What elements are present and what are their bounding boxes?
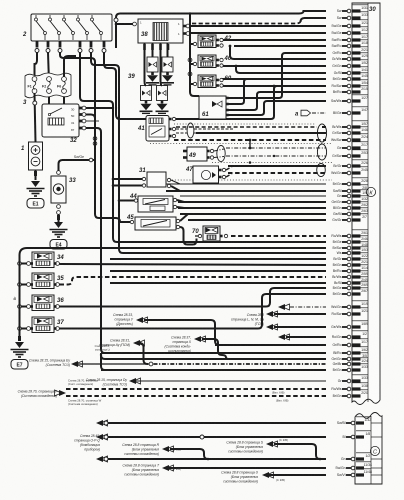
sensor 44 terminals bbox=[134, 199, 137, 202]
wire 11/34 (Sw/Gn) bbox=[168, 462, 372, 470]
arrow to TCM row 1/89 bbox=[266, 324, 273, 330]
sensor 31 bbox=[139, 168, 166, 187]
wire riser 61 to 1/45 bbox=[228, 79, 326, 104]
wire 2/15 (Br/Ro) bbox=[333, 86, 368, 94]
wire 1/45 (Br/Gn) bbox=[222, 73, 368, 81]
wire 1/32 (Ge/Gn) bbox=[178, 196, 368, 204]
wire 1/19 (Ws/Gn) bbox=[290, 301, 368, 309]
vertical feed right of box2 bbox=[114, 18, 118, 22]
left rail into 61 bbox=[190, 14, 199, 97]
wire 3/5 (Ge/Gn) bbox=[332, 353, 369, 361]
wire 33 down to ground bbox=[58, 215, 60, 223]
circled letter C on bottom box bbox=[370, 446, 379, 455]
wire 1/27 (Sw/Ws) bbox=[331, 95, 368, 103]
wire 2/63 (Ge/Bl) bbox=[180, 208, 368, 216]
wire 1/53 (Ws) bbox=[337, 247, 368, 255]
central electric unit 30 (tall box) bbox=[352, 3, 380, 405]
wire 1/8 (Bl) bbox=[106, 431, 371, 439]
wire feed injector 37 bbox=[20, 328, 27, 330]
terminals below box 2 bbox=[35, 41, 106, 53]
wire rail x101 branch 3/5 bbox=[101, 355, 326, 359]
coil 38 terminals bbox=[133, 22, 137, 26]
wire 1/38 (Ro/Ws) bbox=[66, 383, 368, 391]
annotation cooling block U bbox=[221, 471, 258, 484]
injector 34 terminals bbox=[27, 262, 31, 266]
injector feed rail + row 1/48 bbox=[20, 248, 327, 336]
ground E4 bbox=[50, 222, 68, 249]
wire 1/31 (Sw) bbox=[337, 5, 368, 13]
wire 2/28 (Br/Gn) bbox=[166, 178, 368, 186]
relay 41 terminals bbox=[169, 118, 172, 121]
ignition switch assembly 2 bbox=[22, 14, 112, 41]
wire 2/62 (Bl/Gn) bbox=[178, 202, 368, 210]
fuse box 3 bbox=[23, 73, 71, 106]
wire 1/24 (Ge/Br) bbox=[333, 358, 368, 366]
wire 2/26 (Br/Gr) bbox=[228, 160, 368, 168]
annotation cooling block R bbox=[122, 443, 159, 456]
sensor 42 bbox=[198, 35, 232, 48]
annotation cooling system V bbox=[18, 390, 58, 399]
sensor 31 terminals bbox=[142, 177, 145, 180]
sensor 40 bbox=[198, 55, 232, 68]
wire 1/33 (Sw) bbox=[337, 12, 368, 20]
annotation instrument cluster bbox=[74, 434, 100, 452]
annotation air conditioning X bbox=[165, 336, 192, 354]
wire injector 34 to 2/21 bbox=[60, 264, 327, 265]
arrow U bbox=[262, 472, 269, 478]
wire 1/33 (Gr) bbox=[135, 375, 368, 383]
screened cable dotted outline bbox=[150, 124, 332, 180]
wire 2/24 (Ws/Sw) bbox=[174, 134, 368, 142]
fuel pump 33 bbox=[51, 176, 76, 203]
shield oval right of 49 bbox=[317, 144, 326, 160]
injector 36 bbox=[32, 295, 64, 311]
valve 70 terminals bbox=[198, 234, 201, 237]
wire injector 35 dashed to 2/59 bbox=[60, 277, 327, 285]
annotation cooling upper right bbox=[68, 379, 98, 387]
injector 35 terminals bbox=[27, 283, 31, 287]
wire 1/41 (Gr/Bl) bbox=[334, 67, 368, 75]
arrow cooling right bbox=[59, 390, 66, 396]
spark plug tower (cyl 4) bbox=[156, 86, 169, 114]
arrow to TCM row 1/19 bbox=[278, 304, 285, 310]
wire 1/14 (Br/Ro) bbox=[110, 265, 368, 273]
wire 2/67 (Br/Gn) bbox=[333, 288, 368, 296]
wire F2 to relay 32 bbox=[48, 94, 50, 105]
valve 47 terminals bbox=[219, 169, 222, 172]
injector 36 terminals bbox=[27, 305, 31, 309]
control unit 61 bbox=[199, 96, 226, 119]
starter inhibitor relay 32 bbox=[42, 104, 79, 144]
arrow X bbox=[194, 336, 201, 342]
battery 1 bbox=[21, 142, 43, 170]
ground E1 bbox=[27, 181, 45, 208]
junction dots and tie on screened rows bbox=[249, 140, 251, 148]
wire box2 to relay 41 bbox=[104, 53, 146, 120]
arrow left end row y=423 bbox=[96, 420, 103, 426]
injector 37 bbox=[32, 317, 64, 333]
shield oval at 41 bbox=[187, 123, 194, 138]
spark plug tower (cyl 2) bbox=[146, 57, 159, 85]
unit 61 terminals bbox=[226, 97, 229, 100]
sensor 49 bbox=[187, 147, 207, 161]
wire branch 1/18 to 1/29 bbox=[230, 46, 326, 59]
wire PCM down to row 1/24 bbox=[140, 343, 149, 364]
wire feed injector 35 bbox=[20, 284, 27, 286]
wire dashed from coil to 1/33 bbox=[192, 21, 301, 24]
wire 2/69 (Br/Ge) bbox=[333, 282, 368, 290]
wire 1/21 (Ro/Sw) bbox=[274, 308, 368, 316]
arrow to TCM row 1/2 bbox=[278, 334, 285, 340]
injector 34 bbox=[32, 252, 64, 268]
wire dashed into 1/57 bbox=[176, 126, 317, 128]
sensor 60 terminals bbox=[193, 82, 196, 85]
main relay 41 bbox=[137, 116, 169, 142]
wire 42 left pin to rail bbox=[190, 43, 193, 45]
wire feed injector 34 bbox=[20, 263, 27, 265]
arrow to TCM row 1/21 bbox=[266, 311, 273, 317]
wire 1/9 (Gn) bbox=[180, 190, 368, 198]
wire X to row 3/5 bbox=[202, 339, 326, 359]
wire box2 to rail x113 bbox=[80, 53, 326, 243]
wire 1/57 (Br/Ws) bbox=[322, 121, 368, 129]
paper noise overlay bbox=[0, 0, 1, 1]
motor 33 terminals bbox=[57, 171, 61, 175]
sensor 44 bbox=[129, 194, 173, 212]
arrow Dy bbox=[129, 378, 136, 384]
wire 2/45 (Ws/Gn) bbox=[228, 167, 368, 175]
wire injector 37 riser to 2/67 bbox=[60, 294, 327, 329]
sensor 49 terminals bbox=[207, 150, 210, 153]
wire 31 right to rows bbox=[171, 180, 326, 184]
connector circles on rail to 61 bbox=[188, 58, 192, 62]
wire 1/46 (Gr/Sw) bbox=[196, 127, 368, 135]
arrow R bbox=[162, 446, 169, 452]
wire 1/2 (Gn) bbox=[106, 453, 371, 461]
wire throttle to 1/17 row bbox=[144, 320, 219, 345]
shield oval at 1/57,1/46 bbox=[317, 124, 326, 142]
annotation Vkl KV labels bbox=[272, 391, 289, 403]
annotation cooling block T bbox=[123, 464, 160, 477]
idle valve 47 bbox=[185, 166, 219, 183]
wire 2/53 (Gr/Sw) bbox=[226, 150, 368, 158]
wire R joining row 1/2 bbox=[170, 449, 208, 459]
annotation TCM bbox=[231, 313, 264, 326]
wire 2/46 (Br/Ge) bbox=[333, 236, 368, 244]
sensor 49 left studs bbox=[183, 150, 187, 153]
sensor 42 terminals bbox=[193, 42, 196, 45]
annotation cooling lower right bbox=[68, 399, 102, 407]
wire 2/61 (Ro/Ws) bbox=[231, 230, 368, 238]
wire riser 61 to 2/21 bbox=[228, 53, 326, 98]
arrow T bbox=[162, 465, 169, 471]
valve 70 bbox=[203, 226, 220, 241]
injector 35 bbox=[32, 273, 64, 289]
circled letter K on box 30 bbox=[366, 187, 375, 196]
wire 47 jogs bbox=[226, 167, 232, 171]
wire 1/2 (Ro/Gn) bbox=[286, 331, 368, 339]
wire 2/49 (Br/Bl) bbox=[110, 277, 368, 285]
sensor 40 terminals bbox=[193, 62, 196, 65]
annotation PCM bbox=[99, 339, 130, 348]
wire 2/21 (Br/Gn) bbox=[333, 259, 368, 267]
wire 44 left feed bbox=[119, 200, 134, 202]
arrow PCM bbox=[133, 340, 140, 346]
wire rail x119 to 1/53 exists; small text near TCU bbox=[95, 344, 111, 352]
wire row 1/24 with junction bbox=[78, 363, 148, 365]
wire F1 to battery bbox=[35, 94, 36, 143]
wire 31 left feeds bbox=[113, 178, 142, 180]
arrow left end row y=437 bbox=[96, 434, 103, 440]
spark plug tower (cyl 1) bbox=[140, 86, 153, 114]
ignition coil 38 bbox=[138, 19, 183, 43]
wire top feed to 1/31 bbox=[116, 11, 326, 48]
wire 41 dashed pins bbox=[176, 128, 187, 130]
wire 1/22 (Br/Gr) bbox=[110, 253, 368, 261]
ground E7 bbox=[11, 342, 29, 369]
wire 2/21 (Gr/Ro) bbox=[332, 47, 368, 55]
control unit box (bottom right) bbox=[355, 413, 382, 485]
wire 2/20 (Br/Gn) bbox=[66, 390, 368, 398]
arrow S bbox=[266, 441, 273, 447]
arrow left end row y=459 bbox=[96, 456, 103, 462]
arrow throttle bbox=[136, 317, 143, 323]
wire 44 right to rows bbox=[177, 200, 326, 202]
wire 1/89 (Ge/Ws) bbox=[274, 321, 368, 329]
annotation TCU row Dy bbox=[86, 378, 128, 387]
wire 1/33 (Br/Gn) bbox=[101, 364, 368, 372]
wire riser 61 to 1/27 bbox=[228, 101, 326, 115]
wire box2 to fuse F2 bbox=[47, 53, 50, 77]
wire 2/17 (Ge) bbox=[226, 142, 368, 150]
wire F6 to relay 32 bbox=[63, 94, 65, 105]
wire F6 stub bbox=[64, 56, 76, 77]
wire 1/12 (Sw/Ge) bbox=[189, 27, 368, 35]
wire 1/17 (Sw/Ro) bbox=[222, 34, 368, 42]
arrow TCU bbox=[71, 361, 78, 367]
shield oval at 49 bbox=[217, 146, 225, 162]
wire 33 up to rail bbox=[59, 160, 96, 171]
sensor 45 terminals bbox=[130, 220, 133, 223]
wire rail x101 branch 1/33 bbox=[101, 353, 326, 370]
wire 1/54 (Ro/Sw) bbox=[222, 80, 368, 88]
wire injector 36 riser to 2/69 bbox=[60, 288, 327, 307]
wire battery to ground bbox=[35, 170, 37, 180]
wire 70 left stub bbox=[195, 235, 198, 237]
wire 2/7 (Gn/Gr) bbox=[332, 214, 368, 222]
sensor 60 bbox=[198, 75, 232, 88]
sensor 45 bbox=[126, 215, 176, 230]
wire box2 to fuse F1 bbox=[35, 53, 38, 78]
wire branch 1/52 to 1/41 bbox=[236, 66, 326, 73]
wire feed injector 36 bbox=[20, 306, 27, 308]
shield oval rows 166-173 bbox=[317, 164, 326, 177]
wire 1/62 (Bl/Ro) bbox=[101, 347, 368, 355]
jog circle on row 1/8 bbox=[200, 435, 204, 439]
annotation TCU row 1/24 bbox=[29, 359, 70, 368]
wire S joining row 1/2 bbox=[274, 444, 320, 459]
wires 38 to towers bbox=[152, 43, 154, 57]
wire box2 to rail x119 bbox=[91, 53, 326, 254]
wire 1/52 (Gr/Gn) bbox=[222, 60, 368, 68]
spark plug tower (cyl 3) bbox=[161, 57, 174, 85]
wire 45 right to rows bbox=[180, 214, 326, 221]
wire box2 via left rail to sensor 45 bbox=[60, 53, 130, 223]
wire 60 left pin to rail bbox=[190, 83, 193, 85]
wire 11/48 (Sw/Vi) bbox=[266, 469, 372, 477]
wire 40 left pin to rail bbox=[190, 63, 193, 65]
wire 1/18 (Sw/Ro) bbox=[234, 40, 368, 48]
wire 2/8 (Sw/Bl) bbox=[166, 185, 368, 193]
wire 1/17 (Gr/Ro) bbox=[215, 339, 368, 347]
wire row 2/7 bbox=[188, 219, 326, 221]
wire 1/32 (Sw/Bl) bbox=[106, 417, 371, 425]
node a reference with arrow to 1/47 bbox=[295, 110, 311, 117]
wire 45 to valve 70 bbox=[180, 227, 197, 245]
wire riser 61 to 2/15 bbox=[228, 92, 326, 110]
wire 49 to ovals bbox=[214, 149, 224, 151]
wire 1/21 (Sw/Ge) bbox=[189, 20, 368, 28]
wire 32 pin to x116 rail bbox=[86, 107, 112, 109]
injector 37 terminals bbox=[27, 327, 31, 331]
annotation cooling block S bbox=[226, 441, 263, 454]
wire injector rail to ground bbox=[18, 336, 21, 341]
wire riser 41 joining 1/54 bbox=[172, 86, 326, 119]
wire 38 left pin bbox=[116, 23, 133, 25]
wire 1/29 (Gr/Ws) bbox=[332, 53, 368, 61]
wire 1/48 (Br/Sw) bbox=[332, 242, 368, 250]
wire 32 pin stubs bbox=[86, 115, 95, 153]
relay 32 terminals bbox=[79, 107, 82, 110]
wire 2/59 (Br/Ws) bbox=[332, 271, 368, 279]
wire 1/47 (Bl/Ge) bbox=[312, 107, 368, 115]
annotation throttle (Дроссель) bbox=[113, 313, 134, 326]
wire 32 lower pin to long left rail bbox=[86, 128, 326, 353]
